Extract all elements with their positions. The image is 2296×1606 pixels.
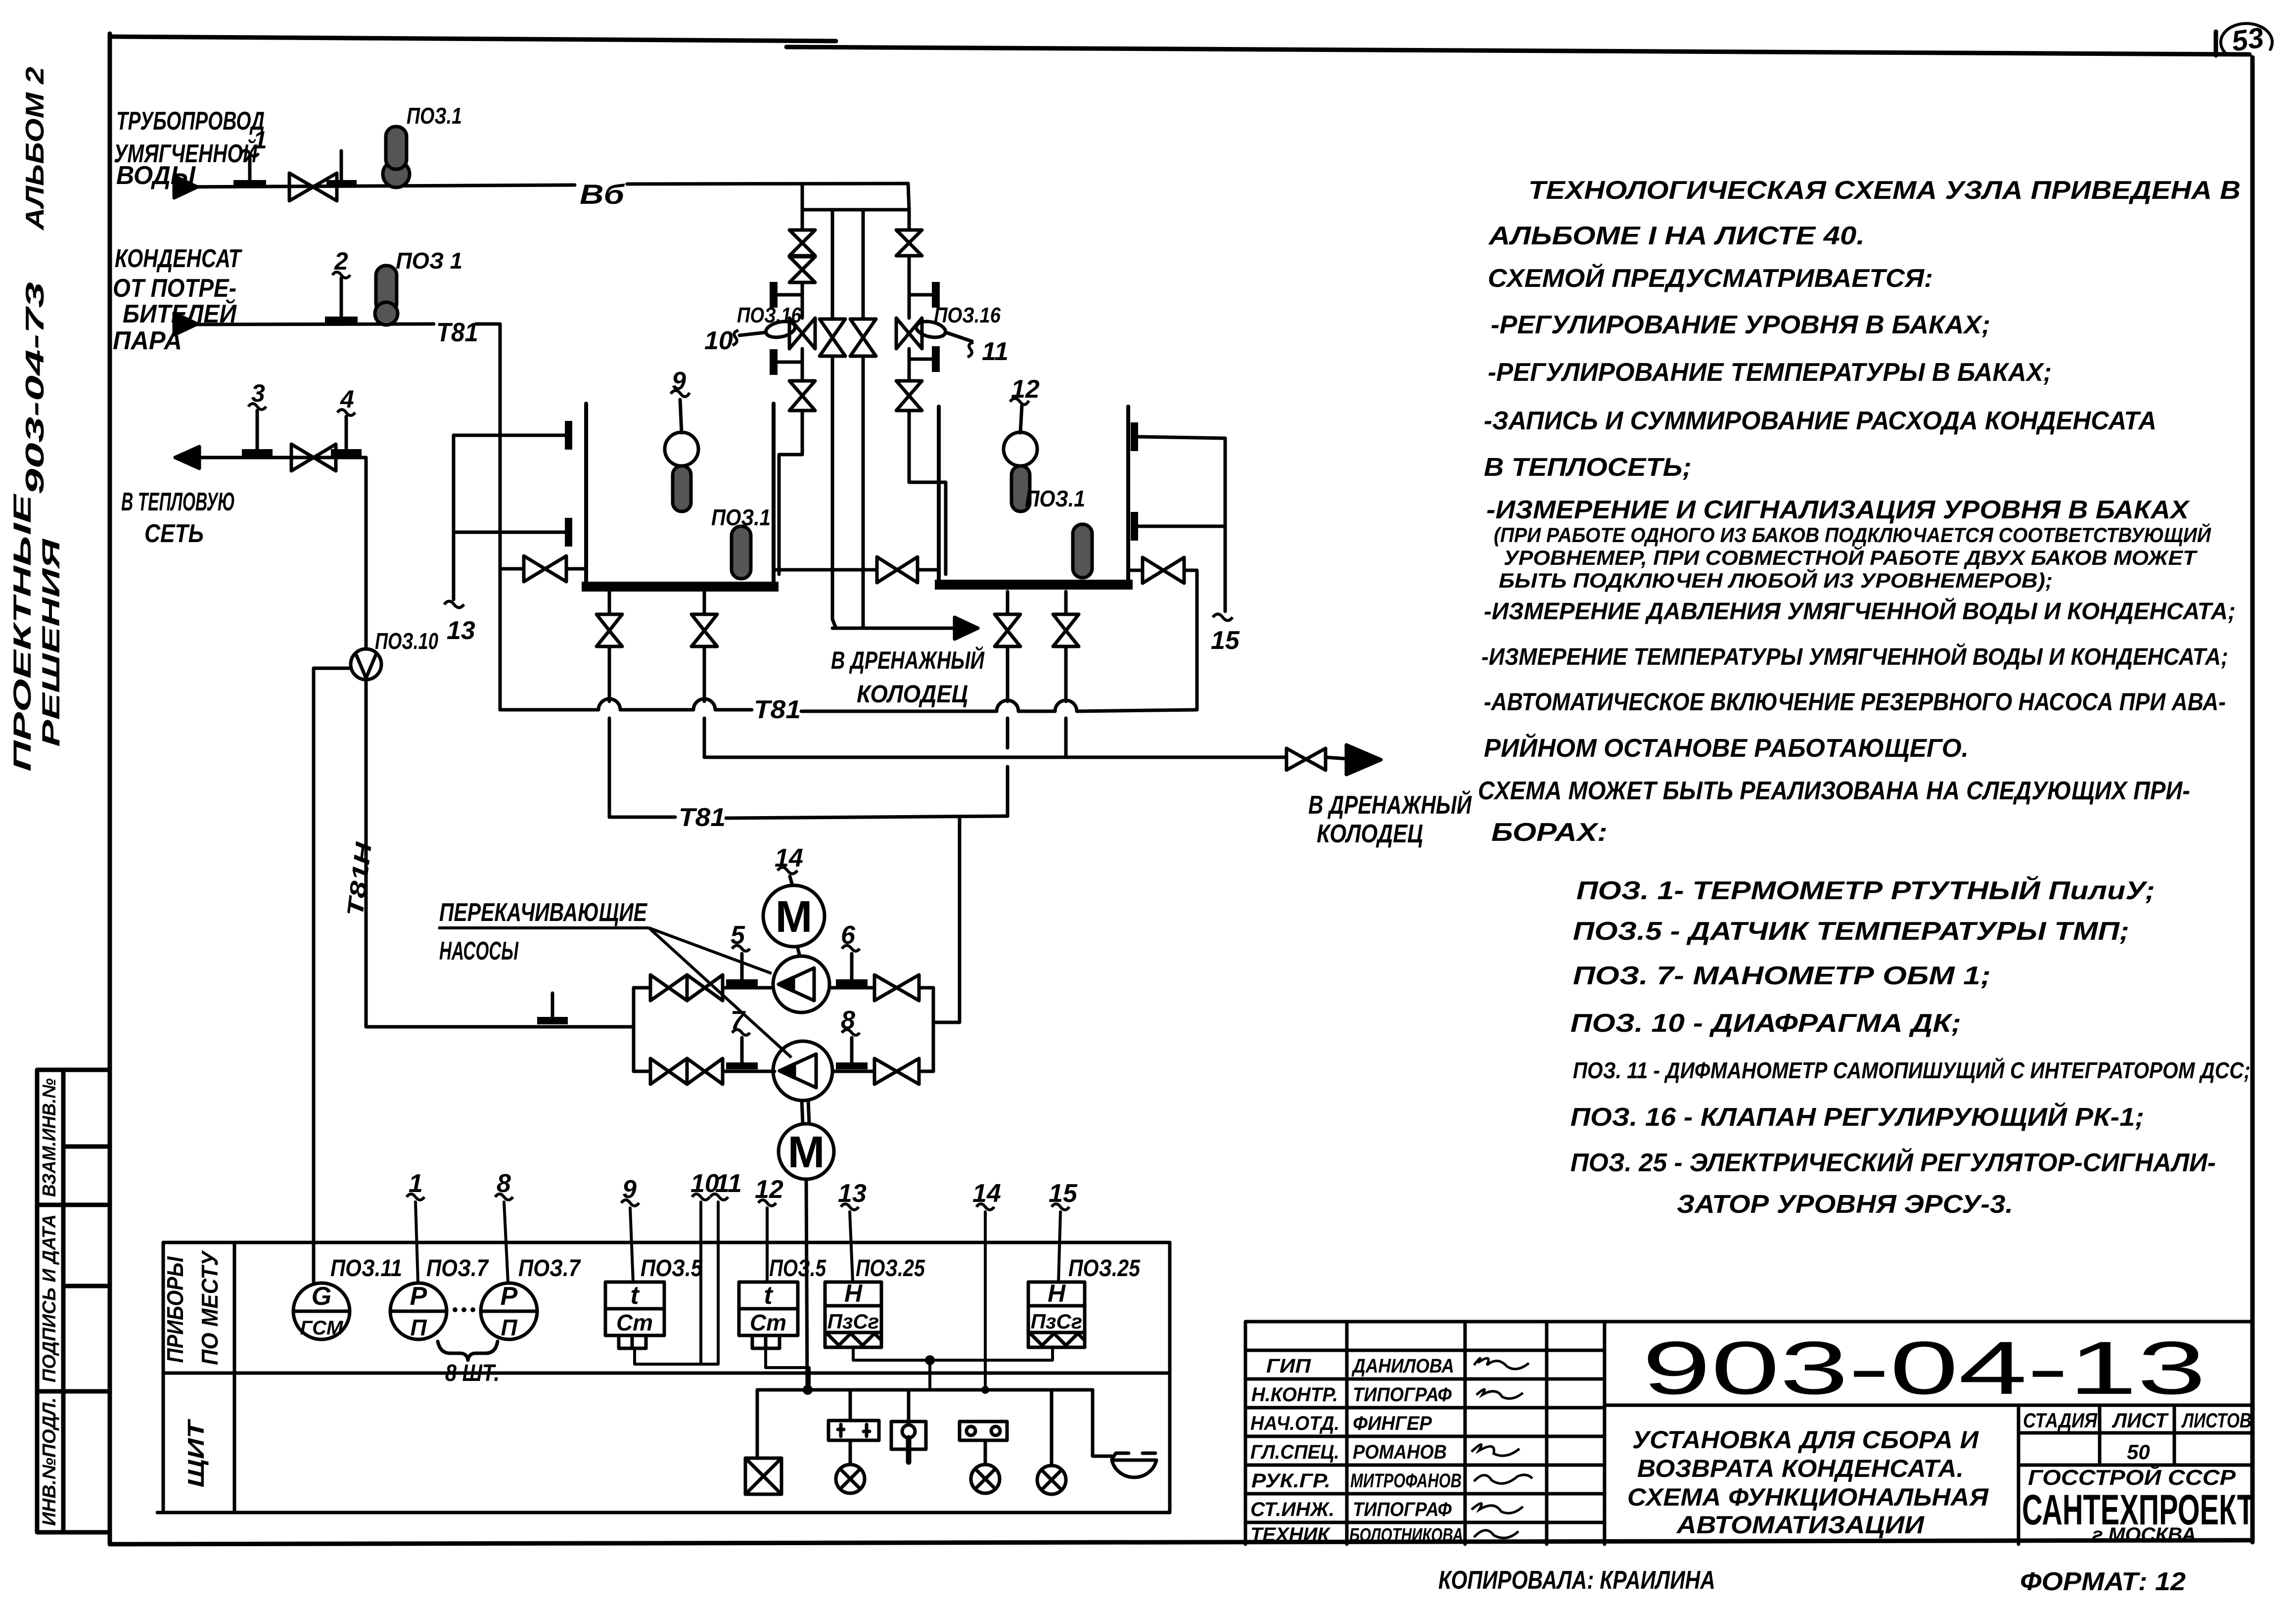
lamp 2	[971, 1465, 1000, 1493]
svg-text:В ДРЕНАЖНЫЙ: В ДРЕНАЖНЫЙ	[831, 646, 985, 674]
tank 2 outlet valve A	[995, 614, 1020, 646]
svg-text:БЫТЬ ПОДКЛЮЧЕН ЛЮБОЙ ИЗ УРО: БЫТЬ ПОДКЛЮЧЕН ЛЮБОЙ ИЗ УРОВНЕМЕРОВ);	[1499, 568, 2053, 592]
svg-text:В ТЕПЛОВУЮ: В ТЕПЛОВУЮ	[121, 488, 235, 516]
svg-text:ТИПОГРАФ: ТИПОГРАФ	[1353, 1384, 1452, 1406]
pump 1 discharge valve	[874, 975, 919, 1001]
svg-text:ПОЗ. 11 - ДИФМАНОМЕТР САМОПИШУ: ПОЗ. 11 - ДИФМАНОМЕТР САМОПИШУЩИЙ С ИНТЕ…	[1573, 1057, 2250, 1083]
pump 2 tap left stem	[740, 1038, 744, 1064]
pump 1 tap left stem	[740, 954, 744, 981]
tag 10 panel tilde	[692, 1194, 710, 1200]
tank 2 bottom	[935, 580, 1133, 590]
tank 1 right wall	[772, 404, 776, 588]
annunciator square	[745, 1458, 781, 1494]
svg-text:ПОЗ.1: ПОЗ.1	[407, 103, 462, 129]
lamp 3	[1037, 1466, 1066, 1494]
tank equalization line	[774, 568, 939, 572]
instrument t St box 1	[605, 1282, 664, 1335]
right chain tap upper bar	[932, 282, 940, 308]
instrument G GSM	[293, 1283, 350, 1339]
svg-text:ПОЗ 1: ПОЗ 1	[396, 248, 462, 274]
thermometer poz1 in tank 1	[732, 526, 751, 579]
switch box	[891, 1422, 926, 1449]
svg-text:ПОЗ. 10 - ДИАФРАГМА ДК;: ПОЗ. 10 - ДИАФРАГМА ДК;	[1570, 1009, 1961, 1038]
tag 11 panel tilde	[710, 1194, 728, 1200]
tag 14 stem	[790, 876, 792, 885]
tap T81N bar	[537, 1017, 568, 1024]
svg-text:КОЛОДЕЦ: КОЛОДЕЦ	[1317, 820, 1423, 848]
svg-text:ГСМ: ГСМ	[300, 1317, 344, 1339]
drain right arrow	[1346, 745, 1381, 775]
svg-text:ПОЗ.5 - ДАТЧИК ТЕМПЕРАТУРЫ: ПОЗ.5 - ДАТЧИК ТЕМПЕРАТУРЫ ТМП;	[1573, 917, 2129, 946]
tank equalization valve	[877, 557, 918, 583]
pump 2 tap right stem	[850, 1038, 854, 1064]
instrument P1	[390, 1283, 447, 1339]
pump 1 suction line	[634, 986, 773, 990]
flow arrow in B6	[174, 176, 197, 198]
valve on network line	[291, 444, 336, 471]
svg-text:ПОЗ.7: ПОЗ.7	[518, 1255, 581, 1282]
signal wire 12	[766, 1208, 769, 1282]
pipe T81 condensate line	[174, 324, 500, 324]
junction dot M bus	[803, 1385, 813, 1395]
wire box b to lamp 2	[984, 1440, 987, 1465]
svg-text:АВТОМАТИЗАЦИИ: АВТОМАТИЗАЦИИ	[1676, 1511, 1925, 1539]
svg-text:НАСОСЫ: НАСОСЫ	[439, 937, 519, 965]
svg-text:РЕШЕНИЯ: РЕШЕНИЯ	[37, 538, 65, 747]
svg-text:15: 15	[1049, 1179, 1078, 1208]
pump 1 discharge line	[829, 986, 933, 990]
right chain regulating valve poz16	[896, 318, 922, 349]
svg-text:Н.КОНТР.: Н.КОНТР.	[1251, 1384, 1338, 1406]
thermometer poz1 on T81	[376, 266, 397, 313]
left RV actuator balloon	[765, 319, 797, 340]
left tank tap bar lower	[565, 518, 572, 547]
svg-text:8 ШТ.: 8 ШТ.	[445, 1360, 500, 1386]
svg-text:5: 5	[731, 921, 745, 950]
wire bus to bell	[1093, 1390, 1114, 1456]
svg-text:СТ.ИНЖ.: СТ.ИНЖ.	[1250, 1499, 1334, 1520]
tank 1 inlet valve line	[500, 567, 586, 571]
wire level lines down to 13	[452, 435, 456, 599]
right RV leader to 11	[946, 332, 972, 341]
tag 2 tilde	[332, 272, 350, 278]
tap 1 stem	[248, 157, 252, 182]
drain line to kolodec right	[704, 757, 1346, 759]
panel strip right edge	[1168, 1242, 1172, 1513]
title block small table outline	[1245, 1322, 1605, 1544]
pump 2 suction valve b	[687, 1058, 723, 1084]
tap 3 bar	[242, 449, 273, 456]
svg-text:ПОЗ. 7- МАНОМЕТР ОБМ 1;: ПОЗ. 7- МАНОМЕТР ОБМ 1;	[1573, 962, 1991, 990]
right chain tap upper stem	[909, 293, 934, 297]
svg-text:ТЕХНОЛОГИЧЕСКАЯ СХЕМА УЗЛА: ТЕХНОЛОГИЧЕСКАЯ СХЕМА УЗЛА ПРИВЕДЕНА В	[1528, 176, 2241, 205]
svg-text:-ИЗМЕРЕНИЕ И СИГНАЛИЗАЦИЯ У: -ИЗМЕРЕНИЕ И СИГНАЛИЗАЦИЯ УРОВНЯ В БАКАХ	[1486, 496, 2191, 524]
svg-text:УСТАНОВКА ДЛЯ СБОРА И: УСТАНОВКА ДЛЯ СБОРА И	[1632, 1426, 1979, 1454]
svg-text:ПОЗ.25: ПОЗ.25	[1068, 1255, 1141, 1282]
drain right valve	[1286, 748, 1326, 770]
left chain valve 2	[789, 257, 815, 282]
signal wire 9	[630, 1208, 633, 1282]
svg-text:ГИП: ГИП	[1266, 1355, 1311, 1377]
shchit bus	[757, 1388, 1093, 1392]
svg-text:Н: Н	[844, 1280, 863, 1307]
tap 3 stem	[256, 411, 259, 451]
tank 2 left wall	[937, 407, 941, 588]
right chain valve 3	[896, 381, 922, 411]
tank 1 bottom	[582, 582, 779, 592]
tag 13 panel tilde	[841, 1204, 859, 1210]
tap on B6 after valve	[340, 151, 343, 181]
tag 3 tilde	[248, 404, 266, 410]
svg-text:В ТЕПЛОСЕТЬ;: В ТЕПЛОСЕТЬ;	[1484, 453, 1692, 482]
svg-text:Т81: Т81	[436, 318, 478, 347]
svg-text:УРОВНЕМЕР, ПРИ СОВМЕСТНОЙ РА: УРОВНЕМЕР, ПРИ СОВМЕСТНОЙ РАБОТЕ ДВУХ БА…	[1504, 545, 2198, 569]
svg-text:РИЙНОМ ОСТАНОВЕ РАБОТАЮЩЕГО.: РИЙНОМ ОСТАНОВЕ РАБОТАЮЩЕГО.	[1484, 733, 1969, 763]
svg-text:РОМАНОВ: РОМАНОВ	[1353, 1441, 1447, 1463]
svg-text:П: П	[501, 1315, 517, 1340]
signal box b	[960, 1422, 1007, 1440]
tag 6 tilde	[842, 946, 860, 952]
svg-text:-АВТОМАТИЧЕСКОЕ ВКЛЮЧЕНИЕ РЕЗЕ: -АВТОМАТИЧЕСКОЕ ВКЛЮЧЕНИЕ РЕЗЕРВНОГО НАС…	[1484, 688, 2226, 716]
right chain tap lower bar	[932, 346, 940, 372]
tank 1 inlet valve	[524, 556, 566, 582]
wire header to pump drop	[933, 817, 960, 1022]
svg-text:11: 11	[982, 337, 1009, 366]
left tank tap bar upper	[565, 421, 572, 450]
left tank level line upper	[454, 434, 566, 437]
left RV leader to 10	[739, 332, 766, 335]
diaphragm poz10	[351, 649, 381, 680]
svg-text:t: t	[630, 1281, 640, 1310]
svg-text:ТЕХНИК: ТЕХНИК	[1250, 1524, 1331, 1546]
svg-text:-ЗАПИСЬ И СУММИРОВАНИЕ РАСХОД: -ЗАПИСЬ И СУММИРОВАНИЕ РАСХОДА КОНДЕНСАТ…	[1484, 407, 2157, 435]
pump 1 tap right stem	[850, 954, 854, 981]
tap on T81N	[551, 993, 554, 1019]
svg-text:СТАДИЯ: СТАДИЯ	[2023, 1409, 2098, 1432]
svg-text:ПОЗ.10: ПОЗ.10	[375, 628, 438, 654]
svg-text:t: t	[764, 1281, 774, 1310]
svg-text:Т81: Т81	[754, 695, 801, 724]
tag 15 tilde	[1213, 614, 1233, 621]
tag 10 squiggle	[733, 330, 738, 345]
svg-text:ЩИТ: ЩИТ	[183, 1419, 209, 1488]
svg-text:ПОЗ.16: ПОЗ.16	[737, 303, 801, 327]
svg-text:ДАНИЛОВА: ДАНИЛОВА	[1351, 1355, 1454, 1377]
svg-text:4: 4	[340, 385, 354, 413]
valve on B6 line	[289, 173, 337, 201]
right text block	[1478, 176, 2250, 1219]
panel strip label divider	[233, 1242, 236, 1513]
pump 1 tap left bar	[726, 979, 758, 986]
svg-text:ПАРА: ПАРА	[113, 326, 182, 355]
svg-text:903-04-13: 903-04-13	[1642, 1326, 2206, 1410]
tap 2 bar	[325, 317, 358, 324]
svg-text:БОЛОТНИКОВА: БОЛОТНИКОВА	[1349, 1525, 1463, 1546]
tag 8 panel tilde	[495, 1194, 513, 1200]
wire t2 tail to bus	[766, 1348, 809, 1390]
wire pump discharge riser	[932, 988, 935, 1071]
pump 2 suction valve a	[650, 1058, 687, 1084]
tag 9 panel tilde	[621, 1200, 639, 1206]
svg-text:ПОЗ.11: ПОЗ.11	[330, 1255, 402, 1282]
panel strip bottom line	[157, 1511, 1170, 1514]
left chain pipe	[801, 282, 804, 455]
left chain drop from B6	[801, 184, 804, 230]
svg-text:Т81: Т81	[679, 803, 726, 832]
svg-text:АЛЬБОМЕ I НА ЛИСТЕ 40.: АЛЬБОМЕ I НА ЛИСТЕ 40.	[1488, 222, 1865, 250]
instrument N PzSg box 2	[1028, 1282, 1085, 1347]
left chain tap upper stem	[778, 293, 802, 297]
svg-text:50: 50	[2127, 1440, 2150, 1464]
svg-text:СХЕМА ФУНКЦИОНАЛЬНАЯ: СХЕМА ФУНКЦИОНАЛЬНАЯ	[1627, 1483, 1989, 1511]
svg-text:G: G	[312, 1282, 331, 1311]
right tank level line upper	[1139, 437, 1225, 438]
svg-text:2: 2	[334, 247, 348, 275]
instrument t St box 2	[739, 1282, 798, 1335]
svg-text:3: 3	[251, 379, 265, 407]
svg-text:53: 53	[2230, 21, 2266, 57]
svg-text:ПОЗ. 16 - КЛАПАН РЕГУЛИРУЮЩИ: ПОЗ. 16 - КЛАПАН РЕГУЛИРУЮЩИЙ РК-1;	[1570, 1102, 2144, 1132]
title block small table rows	[1245, 1350, 1605, 1522]
signal wire 8	[504, 1202, 508, 1282]
temp sensor 9 in tank 1	[680, 400, 682, 433]
wire bus to kvadrat	[756, 1390, 759, 1458]
motor M1	[763, 885, 825, 947]
svg-text:ПО МЕСТУ: ПО МЕСТУ	[197, 1249, 223, 1365]
pump 2 tap right bar	[836, 1062, 868, 1069]
signal wire 13	[850, 1212, 853, 1282]
svg-text:ПРОЕКТНЫЕ: ПРОЕКТНЫЕ	[8, 493, 36, 772]
left chain tap upper bar	[770, 282, 778, 308]
pump 1 suction valve a	[650, 975, 687, 1001]
wire network line down to diaphragm	[365, 458, 368, 649]
wire bus to box a	[849, 1390, 852, 1421]
svg-text:ПОЗ. 1- ТЕРМОМЕТР РТУТНЫЙ: ПОЗ. 1- ТЕРМОМЕТР РТУТНЫЙ ПилиУ;	[1576, 875, 2155, 905]
signal wire 14	[984, 1212, 987, 1390]
svg-text:-РЕГУЛИРОВАНИЕ ТЕМПЕРАТУРЫ В: -РЕГУЛИРОВАНИЕ ТЕМПЕРАТУРЫ В БАКАХ;	[1488, 358, 2052, 387]
thermometer poz1 on B6	[383, 161, 410, 187]
svg-text:СХЕМА МОЖЕТ БЫТЬ РЕАЛИЗОВАН: СХЕМА МОЖЕТ БЫТЬ РЕАЛИЗОВАНА НА СЛЕДУЮЩИ…	[1478, 777, 2190, 805]
svg-text:ИНВ.№ПОДЛ.: ИНВ.№ПОДЛ.	[39, 1397, 60, 1526]
panel strip left edge	[162, 1242, 165, 1513]
tank 1 outlet valve A	[597, 614, 622, 646]
svg-text:ПОЗ.25: ПОЗ.25	[856, 1255, 925, 1282]
wire right level down to 15	[1224, 438, 1227, 611]
junction dot bus 14	[981, 1386, 989, 1394]
pump 1	[773, 956, 829, 1012]
svg-text:(ПРИ РАБОТЕ ОДНОГО ИЗ БАКОВ ПО: (ПРИ РАБОТЕ ОДНОГО ИЗ БАКОВ ПОДКЛЮЧАЕТСЯ…	[1494, 522, 2211, 547]
svg-text:ВОЗВРАТА КОНДЕНСАТА.: ВОЗВРАТА КОНДЕНСАТА.	[1637, 1455, 1964, 1482]
svg-text:ПЕРЕКАЧИВАЮЩИЕ: ПЕРЕКАЧИВАЮЩИЕ	[439, 898, 647, 927]
pump 1 tap right bar	[836, 979, 868, 986]
wire box a to lamp 1	[849, 1440, 852, 1465]
svg-text:ПОЗ.1: ПОЗ.1	[711, 505, 771, 530]
border frame top	[110, 37, 2250, 54]
right tank tap bar upper	[1131, 422, 1138, 451]
right tank level line lower	[1139, 525, 1225, 528]
svg-text:РУК.ГР.: РУК.ГР.	[1251, 1470, 1331, 1492]
drain line between tanks	[832, 627, 955, 630]
tank 2 right wall	[1126, 407, 1130, 588]
thermometer poz1 in tank 2	[1073, 524, 1092, 578]
svg-text:15: 15	[1211, 626, 1240, 655]
right chain pipe	[908, 256, 911, 482]
svg-text:12: 12	[1011, 375, 1040, 404]
wire M2 to panel	[806, 1179, 807, 1390]
tag 13 tilde	[444, 601, 464, 608]
svg-text:ПзСг: ПзСг	[827, 1310, 879, 1333]
tag 7 tilde	[732, 1030, 750, 1036]
manifold header	[802, 208, 909, 212]
left chain valve 3	[789, 381, 815, 411]
leader line to pump 2	[649, 928, 791, 1057]
svg-text:КОПИРОВАЛА: КРАИЛИНА: КОПИРОВАЛА: КРАИЛИНА	[1438, 1566, 1715, 1595]
title block big box	[1605, 1322, 2252, 1544]
bypass right valve	[850, 319, 876, 356]
pump 2 tap left bar	[726, 1062, 758, 1069]
svg-text:ТИПОГРАФ: ТИПОГРАФ	[1353, 1499, 1452, 1520]
signal box a	[828, 1421, 879, 1440]
header T81 lower	[609, 816, 1008, 818]
svg-text:ПОЗ.7: ПОЗ.7	[426, 1255, 489, 1282]
svg-text:ЗАТОР УРОВНЯ ЭРСУ-3.: ЗАТОР УРОВНЯ ЭРСУ-3.	[1677, 1190, 2013, 1219]
junction dot N link	[925, 1355, 935, 1365]
brace 8 sht	[438, 1341, 498, 1360]
tap 2 stem	[340, 278, 343, 318]
right tank tap bar lower	[1131, 512, 1138, 541]
left chain elbow into tank 1	[779, 455, 802, 574]
tag 4 tilde	[337, 410, 355, 415]
svg-text:СХЕМОЙ ПРЕДУСМАТРИВАЕТСЯ:: СХЕМОЙ ПРЕДУСМАТРИВАЕТСЯ:	[1488, 263, 1933, 293]
pipe B6 softened water line	[174, 184, 908, 187]
bypass left valve	[820, 319, 845, 356]
motor M2	[779, 1124, 834, 1179]
svg-text:ГЛ.СПЕЦ.: ГЛ.СПЕЦ.	[1250, 1441, 1339, 1463]
svg-text:Р: Р	[410, 1282, 427, 1311]
border frame bottom	[110, 1540, 2252, 1544]
svg-text:-ИЗМЕРЕНИЕ ТЕМПЕРАТУРЫ УМЯГЧЕН: -ИЗМЕРЕНИЕ ТЕМПЕРАТУРЫ УМЯГЧЕННОЙ ВОДЫ И…	[1481, 643, 2228, 670]
tag 1 panel tilde	[407, 1194, 424, 1200]
svg-text:ПОЗ.5: ПОЗ.5	[769, 1255, 827, 1282]
svg-text:ПРИБОРЫ: ПРИБОРЫ	[162, 1256, 188, 1363]
tank 1 outlet pipe A	[608, 592, 611, 817]
wire N1 bottom link	[853, 1347, 1053, 1390]
signal wire 10	[699, 1202, 702, 1364]
tag 12 panel tilde	[758, 1200, 776, 1206]
svg-text:13: 13	[447, 616, 475, 645]
svg-text:Н: Н	[1048, 1280, 1066, 1307]
panel strip top line	[163, 1241, 1170, 1244]
tag 9 tilde	[671, 391, 689, 397]
leader line to pump 1	[649, 928, 772, 973]
tank 2 outlet pipe B	[1064, 592, 1068, 757]
border frame left	[108, 34, 112, 1544]
left chain regulating valve poz16	[789, 318, 815, 349]
wire bus to lamp 3	[1050, 1390, 1054, 1466]
wire bus to switch	[907, 1390, 911, 1422]
svg-text:ВЗАМ.ИНВ.№: ВЗАМ.ИНВ.№	[39, 1078, 60, 1197]
tank 2 outlet valve	[1143, 557, 1184, 583]
pump 2 suction line	[634, 1070, 775, 1073]
svg-text:-ИЗМЕРЕНИЕ ДАВЛЕНИЯ УМЯГЧЕНН: -ИЗМЕРЕНИЕ ДАВЛЕНИЯ УМЯГЧЕННОЙ ВОДЫ И КО…	[1484, 597, 2236, 625]
svg-text:ПОДПИСЬ И ДАТА: ПОДПИСЬ И ДАТА	[39, 1214, 60, 1382]
tap 4 stem	[345, 416, 348, 451]
svg-text:В ДРЕНАЖНЫЙ: В ДРЕНАЖНЫЙ	[1308, 790, 1472, 820]
pump 2	[773, 1041, 832, 1101]
instrument N PzSg box 1	[825, 1282, 881, 1347]
tap 1 bar	[233, 180, 266, 187]
svg-text:ФОРМАТ: 12: ФОРМАТ: 12	[2020, 1567, 2186, 1596]
svg-text:12: 12	[755, 1175, 783, 1204]
tank 1 outlet valve B	[691, 614, 717, 646]
svg-text:8: 8	[841, 1006, 855, 1035]
wire diaphragm stub to G	[314, 668, 351, 1282]
svg-text:ОТ ПОТРЕ-: ОТ ПОТРЕ-	[113, 274, 236, 303]
left chain valve 1	[789, 230, 815, 256]
signal wire 11	[635, 1202, 718, 1364]
instrument P2	[481, 1283, 537, 1339]
svg-text:-РЕГУЛИРОВАНИЕ УРОВНЯ В БАК: -РЕГУЛИРОВАНИЕ УРОВНЯ В БАКАХ;	[1491, 311, 1990, 339]
left chain tap lower stem	[778, 361, 802, 364]
right chain elbow into tank 2	[909, 482, 946, 574]
svg-text:КОНДЕНСАТ: КОНДЕНСАТ	[115, 244, 242, 273]
bell	[1112, 1453, 1156, 1477]
svg-text:ПОЗ. 25 - ЭЛЕКТРИЧЕСКИЙ РЕГУЛ: ПОЗ. 25 - ЭЛЕКТРИЧЕСКИЙ РЕГУЛЯТОР-СИГНАЛ…	[1570, 1147, 2216, 1177]
tag 14 upper tilde	[778, 868, 797, 874]
tank 1 left wall	[584, 404, 588, 588]
left margin stamp boxes	[37, 1070, 107, 1532]
right chain valve 1	[896, 230, 922, 256]
bypass right pipe	[862, 210, 865, 628]
svg-text:ПОЗ.16: ПОЗ.16	[934, 303, 1001, 327]
pump suction riser	[632, 988, 636, 1071]
svg-text:Ст: Ст	[616, 1310, 653, 1335]
pump 2 discharge line	[832, 1070, 933, 1073]
svg-text:6: 6	[841, 921, 856, 950]
tank 2 outlet valve B	[1053, 614, 1079, 646]
svg-text:14: 14	[972, 1179, 1001, 1208]
drain arrow between tanks	[955, 617, 978, 639]
svg-text:13: 13	[838, 1179, 867, 1208]
temp sensor 12 in tank 2	[1020, 406, 1022, 433]
bypass left pipe	[832, 210, 836, 628]
flow arrow in T81	[174, 313, 197, 335]
tag 12 tilde	[1010, 399, 1029, 405]
tag 5 tilde	[732, 946, 750, 952]
svg-text:10: 10	[704, 326, 733, 355]
svg-text:Р: Р	[501, 1282, 518, 1311]
svg-text:М: М	[776, 892, 813, 942]
tank 1 outlet pipe B	[703, 592, 706, 757]
dots between P1 P2	[453, 1307, 458, 1312]
svg-text:НАЧ.ОТД.: НАЧ.ОТД.	[1250, 1413, 1339, 1434]
svg-text:ПОЗ.1: ПОЗ.1	[1025, 486, 1085, 511]
left chain tap lower bar	[770, 349, 778, 375]
svg-text:Ст: Ст	[750, 1310, 786, 1335]
svg-text:г.МОСКВА: г.МОСКВА	[2092, 1524, 2196, 1546]
svg-text:КОЛОДЕЦ: КОЛОДЕЦ	[857, 680, 968, 708]
border frame right	[2250, 57, 2255, 1542]
tap bar after valve	[326, 180, 357, 187]
svg-text:АЛЬБОМ 2: АЛЬБОМ 2	[21, 67, 49, 231]
lamp 1	[836, 1465, 865, 1493]
header T81 under tanks	[500, 699, 1197, 711]
svg-text:14: 14	[775, 844, 803, 872]
tag 15 panel tilde	[1052, 1204, 1069, 1210]
left tank level line lower	[454, 531, 566, 534]
pump 1 suction valve b	[687, 975, 723, 1001]
svg-text:9: 9	[672, 367, 686, 396]
